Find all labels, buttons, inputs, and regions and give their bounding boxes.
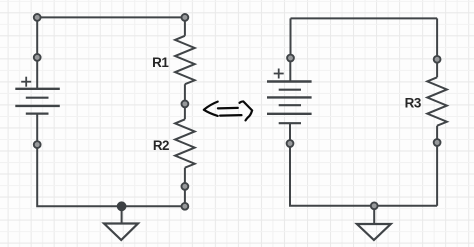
node: left top-left corner — [34, 14, 41, 21]
battery V1 plus sign — [21, 77, 31, 87]
ground GND2 (right) — [357, 206, 391, 240]
node: right ground junction — [371, 202, 378, 209]
resistor R2 — [175, 104, 195, 186]
wire: left circuit top, node A to R1 top — [37, 16, 185, 18]
wire: right circuit top rail — [291, 17, 438, 19]
battery V2 (right, 3-cell) — [267, 58, 312, 144]
battery V2 plus sign — [274, 69, 284, 79]
node: R2 corner on bottom rail — [182, 203, 189, 210]
resistor R1 — [175, 17, 195, 104]
wire: R3 bottom port down to bottom rail — [436, 143, 438, 206]
ground GND1 (left) — [104, 206, 138, 240]
wire: right top-right corner down to R3 top port — [436, 18, 438, 59]
wire: left circuit, battery minus down and along bottom to R2 bottom — [37, 145, 185, 207]
wire: left circuit, top-left corner down to battery plus terminal — [36, 17, 38, 57]
node: battery V1 minus terminal — [34, 141, 41, 148]
node: battery V1 plus terminal — [34, 54, 41, 61]
svg-text:R2: R2 — [153, 138, 169, 153]
node: left top-right corner (R1 top) — [182, 14, 189, 21]
wire: right circuit, battery minus down and along bottom to R3 bottom — [290, 144, 437, 206]
node: battery V2 minus terminal — [287, 140, 294, 147]
node: R3 bottom port — [434, 139, 441, 146]
battery V1 (left, 2-cell) — [15, 57, 60, 144]
node: battery V2 plus terminal — [287, 55, 294, 62]
node: R2 bottom port — [182, 183, 189, 190]
resistor R3 — [427, 59, 447, 142]
junction: left ground junction (dark) — [117, 202, 126, 211]
svg-text:R1: R1 — [152, 55, 169, 70]
node: junction between R1 and R2 — [182, 101, 189, 108]
wire: R2 bottom port to bottom rail — [184, 186, 186, 206]
wire: right circuit top-left corner down to battery plus — [290, 18, 292, 58]
equivalence symbol <=> — [204, 101, 252, 120]
svg-text:R3: R3 — [405, 96, 421, 111]
node: R3 top port — [434, 56, 441, 63]
